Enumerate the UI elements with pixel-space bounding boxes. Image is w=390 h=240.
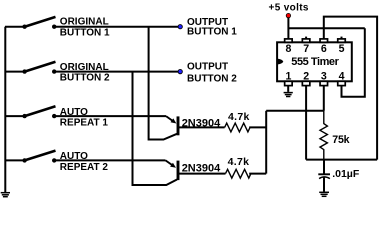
svg-text:2N3904: 2N3904 (182, 118, 221, 130)
pin stubs bottom (1,2,3,4) (285, 81, 346, 85)
svg-text:REPEAT 2: REPEAT 2 (60, 162, 109, 173)
svg-text:8: 8 (286, 43, 292, 55)
wire row2 to Q2 collector (133, 72, 178, 185)
svg-text:BUTTON 1: BUTTON 1 (187, 27, 237, 38)
svg-text:6: 6 (321, 43, 327, 55)
svg-text:.01µF: .01µF (332, 168, 360, 180)
pin nub 5 (341, 37, 343, 39)
wire junction to pin3 column (266, 110, 324, 112)
label ORIGINAL BUTTON 2 (60, 62, 110, 84)
svg-text:555 Timer: 555 Timer (291, 56, 339, 68)
pin nub 7 (305, 37, 307, 39)
ground (capacitor) (319, 192, 329, 196)
svg-text:BUTTON 2: BUTTON 2 (60, 73, 110, 84)
wire RC node horizontal (306, 159, 377, 161)
wire row1 switch to output node (54, 26, 180, 28)
wire pin8 riser to +5 (287, 18, 289, 39)
wire row1 to Q1 collector (149, 27, 177, 140)
svg-text:OUTPUT: OUTPUT (187, 62, 228, 73)
switch S1 (22, 17, 56, 29)
pin stubs top (8,7,6,5) (285, 39, 346, 42)
wire pin4 loop to +5 rail (342, 28, 365, 97)
svg-text:7: 7 (303, 43, 309, 55)
resistor R1 4.7k (225, 111, 250, 132)
svg-text:BUTTON 1: BUTTON 1 (60, 27, 110, 38)
node OUTPUT BUTTON 2 (178, 62, 237, 85)
node OUTPUT BUTTON 1 (178, 17, 237, 37)
svg-text:ORIGINAL: ORIGINAL (60, 17, 109, 28)
wire ground bus left (4, 27, 6, 193)
svg-text:+5 volts: +5 volts (269, 3, 309, 14)
wire row2 to switch (5, 71, 25, 73)
wire R1 right lead (249, 126, 266, 128)
wire row2 switch to output node (54, 71, 180, 73)
wire Q1 emitter to R1 (179, 126, 225, 128)
wire pin3 drop (323, 86, 325, 111)
wire R2 right lead (249, 173, 266, 175)
label ORIGINAL BUTTON 1 (60, 17, 110, 39)
wire pin2 drop to RC node (305, 86, 307, 160)
svg-text:1: 1 (286, 70, 292, 82)
wire row4 to switch (5, 159, 25, 161)
svg-text:AUTO: AUTO (60, 107, 88, 118)
svg-text:4.7k: 4.7k (228, 111, 250, 123)
svg-text:BUTTON 2: BUTTON 2 (187, 74, 237, 85)
svg-text:ORIGINAL: ORIGINAL (60, 62, 109, 73)
switch S4 (22, 151, 56, 163)
svg-text:4: 4 (339, 70, 345, 82)
svg-text:5: 5 (339, 43, 345, 55)
wire row4 switch to Q2 base (54, 159, 165, 161)
wire row3 switch to Q1 base (54, 115, 166, 117)
transistor Q1 2N3904 (166, 116, 221, 135)
capacitor C1 .01uF (318, 160, 360, 192)
op-amp U1 555 Timer body (277, 42, 352, 81)
svg-text:REPEAT 1: REPEAT 1 (60, 118, 109, 129)
ground (left bus) (1, 193, 10, 197)
wire row3 to switch (5, 115, 25, 117)
svg-text:75k: 75k (332, 134, 349, 146)
resistor R2 4.7k (226, 156, 251, 178)
svg-text:2N3904: 2N3904 (182, 162, 221, 174)
wire +5 rail (288, 27, 364, 29)
svg-text:2: 2 (303, 70, 309, 82)
label AUTO REPEAT 2 (60, 151, 109, 173)
wire junction R1-R2 vertical (265, 111, 267, 174)
svg-text:AUTO: AUTO (60, 151, 88, 162)
ground (pin 1) (284, 86, 293, 97)
switch S2 (22, 62, 56, 74)
power +5 volts (269, 3, 309, 18)
transistor Q2 2N3904 (166, 160, 222, 180)
switch S3 (22, 106, 56, 118)
label AUTO REPEAT 1 (60, 107, 109, 129)
wire row1 to switch (5, 26, 25, 28)
resistor R3 75k (320, 111, 350, 160)
wire Q2 emitter to R2 (179, 173, 226, 175)
wire pin6 riser and loop to RC node (324, 17, 377, 160)
svg-text:3: 3 (321, 70, 327, 82)
svg-text:4.7k: 4.7k (228, 156, 250, 168)
